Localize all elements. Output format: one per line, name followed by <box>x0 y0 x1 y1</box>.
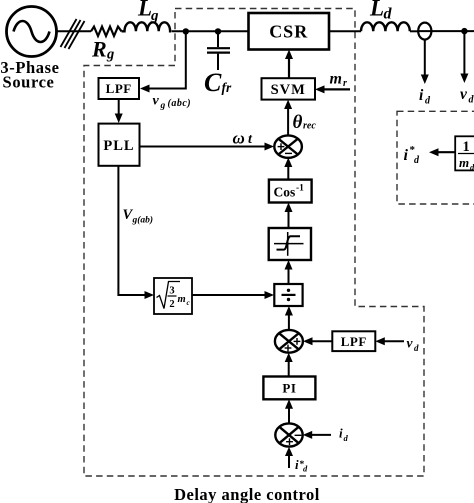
arrow divider to saturation <box>285 260 293 284</box>
inductor Lg <box>122 22 172 31</box>
svg-text:d: d <box>303 464 308 474</box>
svg-text:θ: θ <box>293 112 303 133</box>
Cos^-1 block <box>269 180 312 203</box>
svg-text:d: d <box>344 433 349 443</box>
arrow mr into SVM <box>315 85 350 93</box>
svg-text:g: g <box>160 101 166 111</box>
svg-text:2: 2 <box>169 299 174 310</box>
svg-text:Delay angle control: Delay angle control <box>174 485 320 503</box>
svg-text:d: d <box>470 162 474 172</box>
gain block 1/md <box>455 136 474 172</box>
label Lg <box>137 0 159 24</box>
svg-text:Source: Source <box>3 73 55 92</box>
arrow id into S3 <box>303 431 331 439</box>
node junction vd tap <box>461 28 467 34</box>
label Ld <box>369 0 393 23</box>
svg-text:C: C <box>204 68 222 97</box>
svg-text:v: v <box>460 86 468 103</box>
id measurement arrow <box>421 40 429 84</box>
svg-text:d: d <box>414 343 419 353</box>
summer S2 vd loop <box>275 330 303 353</box>
arrow 1/md to id* <box>429 148 455 156</box>
svg-text:L: L <box>137 0 152 21</box>
capacitor Cfr <box>207 31 230 70</box>
LPF block grid filter <box>99 78 140 99</box>
inductor Ld <box>361 22 410 31</box>
svg-text:PI: PI <box>282 381 296 396</box>
svg-text:m: m <box>178 294 186 305</box>
reference dashed box id* <box>397 111 474 204</box>
svg-text:i: i <box>404 147 409 164</box>
svg-text:L: L <box>369 0 384 21</box>
label omega t <box>233 128 254 147</box>
svg-text:d: d <box>469 95 474 106</box>
label 3-Phase Source <box>0 58 59 92</box>
vd measurement arrow <box>460 31 468 83</box>
svg-text:i: i <box>295 457 299 472</box>
arrow saturation to Cos-1 <box>285 203 293 229</box>
svg-text:R: R <box>91 37 107 62</box>
svg-text:LPF: LPF <box>106 81 132 96</box>
svg-text:i: i <box>419 87 424 104</box>
svg-text:d: d <box>425 96 431 107</box>
PLL block <box>99 124 140 166</box>
label theta_rec <box>293 112 317 133</box>
arrow summer S1 to SVM theta_rec <box>284 100 292 136</box>
current sensor ellipse <box>418 23 431 40</box>
svg-text:PLL: PLL <box>103 138 134 154</box>
svg-text:ω: ω <box>233 128 245 147</box>
svg-text:g: g <box>150 8 159 24</box>
svg-text:d: d <box>414 155 420 166</box>
arrow SVM to CSR <box>285 50 293 79</box>
svg-text:m: m <box>459 155 469 170</box>
svg-text:fr: fr <box>222 80 232 95</box>
svg-text:SVM: SVM <box>271 82 306 98</box>
node junction Cfr tap <box>215 28 221 34</box>
arrow Cos-1 to summer S1 <box>284 158 292 180</box>
svg-text:CSR: CSR <box>269 22 308 42</box>
label id <box>419 87 431 107</box>
arrow S2 to divider <box>285 306 293 330</box>
delay angle control dashed boundary <box>84 9 424 477</box>
label mr <box>330 71 348 90</box>
3-phase slash marks <box>61 19 85 49</box>
svg-text:c: c <box>187 299 190 307</box>
label vd input <box>407 336 420 354</box>
arrow LPF to summer S2 <box>303 337 332 345</box>
svg-text:m: m <box>330 71 342 88</box>
summer S3 current loop <box>275 423 302 446</box>
label Cfr <box>204 68 232 97</box>
3-phase AC source <box>7 7 57 57</box>
SVM block <box>262 78 316 99</box>
node junction vg tap <box>183 28 189 34</box>
svg-text:d: d <box>384 6 393 23</box>
svg-text:g: g <box>106 47 114 63</box>
wire sensor to right edge <box>418 30 474 32</box>
wire PLL to sqrt block Vg(ab) <box>118 166 154 299</box>
svg-text:3: 3 <box>169 286 174 297</box>
label vd <box>460 86 474 106</box>
svg-text:(abc): (abc) <box>168 98 192 109</box>
svg-text:i: i <box>339 426 343 441</box>
LPF block vd filter <box>332 331 375 351</box>
arrow id* into S3 <box>285 447 293 468</box>
label Rg <box>91 37 114 63</box>
saturation limiter block <box>269 228 311 260</box>
wire vg tap to LPF <box>140 31 186 92</box>
PI controller block <box>263 377 315 400</box>
wire CSR to Ld <box>329 30 361 32</box>
resistor Rg <box>91 27 122 36</box>
svg-text:v: v <box>153 94 160 109</box>
svg-text:-1: -1 <box>296 184 304 194</box>
svg-text:r: r <box>343 78 347 89</box>
arrow S3 to PI <box>285 399 293 423</box>
label id feedback <box>339 426 349 444</box>
wire source to resistor <box>57 30 92 32</box>
svg-text:t: t <box>248 132 253 147</box>
label id* reference input <box>295 457 308 474</box>
svg-text:Cos: Cos <box>274 185 296 200</box>
svg-text:g(ab): g(ab) <box>132 215 154 226</box>
svg-text:1: 1 <box>463 139 470 155</box>
svg-text:LPF: LPF <box>341 334 367 349</box>
svg-text:rec: rec <box>303 121 316 132</box>
arrow vd into LPF <box>375 337 404 345</box>
divider block <box>274 284 302 306</box>
wire sqrt block to divider <box>192 291 274 299</box>
wire Lg to CSR <box>172 30 250 32</box>
arrow PI to summer S2 <box>285 353 293 377</box>
label id* reference output <box>404 144 421 166</box>
wire Ld to sensor <box>410 30 419 32</box>
wire PLL to summer S1 omega t <box>140 143 275 151</box>
sqrt(3/2)mc gain block <box>154 278 192 314</box>
label vg(abc) <box>153 94 192 112</box>
label Vg(ab) <box>123 207 154 226</box>
svg-text:v: v <box>407 336 414 351</box>
summer S1 theta_rec <box>274 135 302 157</box>
CSR block <box>249 13 330 50</box>
arrow LPF to PLL <box>115 99 123 123</box>
